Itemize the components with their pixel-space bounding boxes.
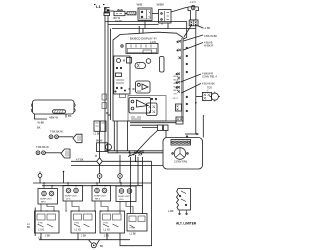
relay K1: [114, 10, 125, 16]
surface unit SU4: [116, 186, 136, 202]
junction dot: [195, 102, 197, 104]
convection fan motor M1: [172, 148, 189, 160]
wire arrow mid right: [185, 133, 199, 137]
sub-board A: [114, 56, 132, 94]
label CONV FAN: [174, 160, 187, 164]
svg-text:Y-R: Y-R: [174, 94, 178, 96]
svg-text:2 BK: 2 BK: [81, 235, 87, 238]
vent motor M3: [31, 100, 75, 114]
bottom wire: [39, 239, 130, 241]
svg-text:OV LT: OV LT: [173, 98, 179, 100]
svg-text:L1 N: L1 N: [190, 0, 196, 4]
svg-text:BU-W: BU-W: [174, 80, 179, 82]
relay W/B K2: [138, 8, 152, 21]
pin label column: [173, 76, 180, 100]
wire AT bus lower: [71, 165, 163, 167]
terminal dots on switch tops: [40, 210, 108, 211]
svg-text:BK-R: BK-R: [174, 83, 179, 85]
svg-text:W-BK: W-BK: [174, 87, 180, 89]
svg-text:T-BK BK-W: T-BK BK-W: [36, 146, 49, 149]
node circle left: [38, 172, 42, 184]
label W/B: [137, 3, 143, 7]
wire label 1 BK-W: [204, 27, 211, 30]
fuse box on board edge: [176, 104, 182, 111]
node stub: [63, 171, 65, 183]
infinite switch SW2: [71, 211, 96, 233]
terminal dot: [121, 45, 123, 47]
door latch switch S1: [104, 8, 110, 16]
wire pads on left bus: [106, 112, 111, 116]
twin modules X1: [94, 121, 107, 136]
svg-text:4 BU-W BK: 4 BU-W BK: [202, 83, 215, 86]
cooling fan M2: [96, 140, 112, 152]
label BK left: [37, 126, 41, 130]
svg-text:BK: BK: [27, 226, 31, 229]
svg-text:CONV FAN: CONV FAN: [174, 160, 187, 164]
infinite switch SW4: [127, 214, 147, 236]
wire twin-box drop to diamond: [99, 131, 101, 158]
control board U1 outline: [113, 32, 183, 121]
node L1 (top-left label): [94, 4, 105, 9]
wire K3 to power cord: [171, 8, 188, 13]
svg-text:BK: BK: [37, 126, 41, 130]
svg-text:L1 H1: L1 H1: [104, 229, 111, 232]
svg-text:LR 6: LR 6: [119, 199, 124, 201]
cap C1: [146, 59, 151, 64]
connector pair row1: [49, 131, 82, 143]
svg-text:P H2: P H2: [38, 223, 43, 225]
connector pair row2: [36, 146, 70, 158]
relay K4 tall: [160, 57, 165, 73]
connector strip J2: [171, 140, 191, 146]
wire bus left vert x105: [105, 22, 163, 151]
wire into blower: [196, 96, 203, 98]
wire drops from junction: [131, 157, 143, 214]
wire bus left vert x110.5: [110, 29, 112, 121]
svg-text:L1 H1: L1 H1: [75, 229, 82, 232]
svg-text:L1 H1: L1 H1: [38, 229, 45, 232]
convection assembly enclosure: [163, 138, 203, 170]
diamond junction D1: [95, 155, 102, 165]
svg-text:BK-W: BK-W: [174, 76, 179, 78]
board text BK/BCD DISPLAY: [130, 37, 157, 45]
svg-text:ALT. LIMITER: ALT. LIMITER: [176, 222, 197, 226]
wire vert to conv loop: [202, 115, 204, 138]
svg-text:Y: Y: [207, 89, 209, 92]
pilot lamp B: [118, 155, 123, 183]
pads under display: [143, 50, 152, 53]
wire right vert x195.8: [195, 26, 197, 134]
wire stubs from relays down: [145, 21, 168, 29]
wire under-board bus: [130, 123, 176, 128]
svg-text:SURF UNIT: SURF UNIT: [118, 196, 130, 198]
svg-text:W-BK: W-BK: [38, 121, 45, 125]
wire bus top y21.5: [105, 21, 187, 23]
svg-text:10 TD: 10 TD: [115, 19, 122, 23]
left riser: [34, 208, 36, 237]
wire latch drop: [105, 16, 108, 25]
relay K7 upper: [136, 81, 151, 93]
wire TB1 to board corner: [184, 26, 191, 37]
stub drops: [41, 233, 107, 240]
wire right vert x186.7: [184, 22, 187, 40]
svg-text:L-BK: L-BK: [168, 210, 174, 213]
wire right loop: [120, 161, 152, 245]
board bottom terminal box TB2: [176, 117, 183, 124]
surface unit SU1: [38, 189, 58, 205]
svg-text:RR 6: RR 6: [95, 199, 101, 201]
svg-text:P H2: P H2: [75, 223, 80, 225]
wire K1 to hatched link: [125, 13, 127, 15]
vent wires: [35, 114, 67, 119]
svg-text:BK: BK: [68, 114, 72, 118]
resonator Y1: [135, 63, 146, 69]
wire latch to relay K1: [110, 10, 115, 12]
wire bus top y28.5: [112, 28, 196, 30]
junction cluster: [128, 151, 144, 157]
label BK W under K1: [114, 16, 123, 23]
blower B1: [202, 92, 220, 102]
power cord plug P1: [188, 0, 199, 20]
pad rect: [120, 94, 126, 98]
svg-text:T-BK BK-W: T-BK BK-W: [50, 131, 63, 134]
pilot lamp A: [97, 165, 102, 183]
svg-text:BK: BK: [100, 245, 104, 248]
wires SU to switches: [41, 201, 133, 214]
label ALT LIMITER: [176, 222, 197, 226]
relay K6: [147, 103, 158, 116]
wire TB3 diag: [136, 131, 158, 153]
svg-text:RF 8: RF 8: [41, 202, 47, 204]
board bottom pads TB3: [158, 125, 169, 131]
alt limiter AL1: [168, 189, 191, 215]
relay W/BK K3: [159, 10, 172, 24]
wire TB1 stub right: [198, 26, 203, 28]
svg-text:W/BK: W/BK: [157, 3, 165, 7]
svg-text:L1 BK: L1 BK: [204, 27, 211, 30]
svg-text:L1: L1: [96, 4, 101, 9]
wire blower diag label: [181, 74, 202, 82]
svg-text:4 BK-W BK: 4 BK-W BK: [204, 34, 217, 38]
svg-text:SURF UNIT: SURF UNIT: [94, 196, 106, 198]
svg-text:4/BK-W: 4/BK-W: [49, 116, 58, 120]
svg-text:W/B: W/B: [137, 3, 143, 7]
wire K2 to K3: [152, 13, 159, 15]
wire board to label A BK-W: [184, 35, 204, 41]
wire stub into board top: [139, 26, 143, 34]
display window DS1: [126, 44, 158, 54]
surface bus 2: [42, 185, 143, 187]
surface bus 1: [33, 182, 152, 184]
switch labels: [27, 223, 110, 238]
svg-text:LF 6: LF 6: [66, 199, 71, 201]
infinite switch SW3: [100, 211, 125, 233]
wire bundle from board bottom: [114, 121, 127, 153]
relay cluster K5: [128, 96, 166, 122]
terminal block TB1: [189, 20, 198, 26]
svg-text:CONV REL 4: CONV REL 4: [202, 75, 217, 78]
surface unit SU2: [63, 186, 83, 202]
surface unit SU3: [92, 186, 111, 202]
dots on buses: [43, 182, 130, 186]
wire bus top y24.5: [108, 24, 159, 26]
svg-text:P H2: P H2: [104, 223, 109, 225]
svg-text:SURF UNIT: SURF UNIT: [65, 196, 77, 198]
svg-text:2 BK: 2 BK: [45, 235, 51, 238]
svg-text:BR-W: BR-W: [174, 90, 179, 92]
svg-text:L1 BK: L1 BK: [130, 233, 137, 236]
pigtail ground loop: [89, 240, 104, 248]
board inner terminals right column: [176, 40, 188, 112]
hatched connector J1: [127, 12, 136, 15]
connector blocks on left bus: [102, 94, 107, 100]
infinite switch SW1: [35, 211, 60, 233]
wire AT bus upper: [71, 160, 152, 162]
svg-text:SURF UNIT: SURF UNIT: [40, 199, 52, 201]
svg-text:4 T-BK: 4 T-BK: [76, 159, 84, 162]
wire bus left vert x108: [108, 25, 163, 153]
svg-text:W BK-R: W BK-R: [204, 44, 213, 48]
wire board to label A BU: [184, 43, 204, 51]
solder pads: [129, 88, 135, 90]
bus drops to burners: [44, 183, 130, 189]
label W/BK: [157, 3, 165, 7]
